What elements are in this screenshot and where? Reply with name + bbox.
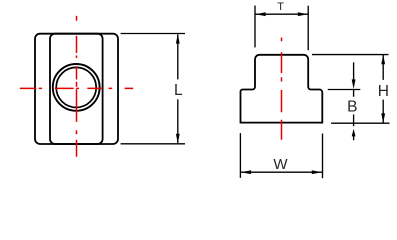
svg-text:L: L — [174, 82, 183, 99]
dimension T: left arrow — [255, 12, 265, 16]
dimension H: bottom arrow — [381, 113, 385, 123]
dimension T: dimension line — [255, 13, 308, 15]
dimension L: bottom arrow — [176, 134, 180, 144]
right view: T-profile outline — [241, 55, 323, 123]
tapped hole: inner circle — [56, 67, 96, 107]
dimension L: top extension line — [121, 33, 185, 35]
dimension L: dimension line (broken for label) — [177, 34, 179, 79]
tapped hole: outer circle — [53, 64, 100, 111]
dimension L: top arrow — [176, 34, 180, 44]
centerline horizontal (left view, red dash-dot) — [20, 87, 133, 89]
svg-text:W: W — [273, 156, 288, 173]
dimension T: right arrow — [298, 12, 308, 16]
dimension B: outside top arrow (points down to shoulder) — [353, 62, 355, 80]
dimension W: right arrow — [312, 170, 322, 174]
dimension B: outside bottom arrow (points up to bottom line) — [353, 136, 355, 140]
dimension B: dimension line (broken for label) — [353, 90, 355, 97]
dimension B: top extension line (shoulder) — [328, 89, 361, 91]
svg-text:T: T — [277, 1, 284, 13]
left view: inner boss outline (rounded rectangle) — [50, 34, 103, 144]
dimension H: top extension line — [312, 54, 389, 56]
left view: outer body outline (rounded rectangle) — [35, 34, 118, 144]
dimension W: dimension line — [241, 171, 322, 173]
dimension T: right extension line — [307, 6, 309, 51]
dimension H: bottom extension line (shared with B) — [331, 122, 389, 124]
dimension H: top arrow — [381, 55, 385, 65]
dimension W: left extension line — [239, 133, 241, 178]
dimension L: bottom extension line — [121, 143, 185, 145]
dimension T: left extension line — [254, 6, 256, 48]
svg-text:B: B — [347, 99, 357, 116]
svg-text:H: H — [378, 83, 389, 100]
dimension W: left arrow — [241, 170, 251, 174]
dimension H: dimension line (broken for label) — [382, 55, 384, 80]
centerline vertical (right view, red dash-dot) — [281, 38, 283, 140]
dimension W: right extension line — [322, 134, 324, 179]
centerline vertical (left view, red dash-dot) — [76, 16, 78, 157]
